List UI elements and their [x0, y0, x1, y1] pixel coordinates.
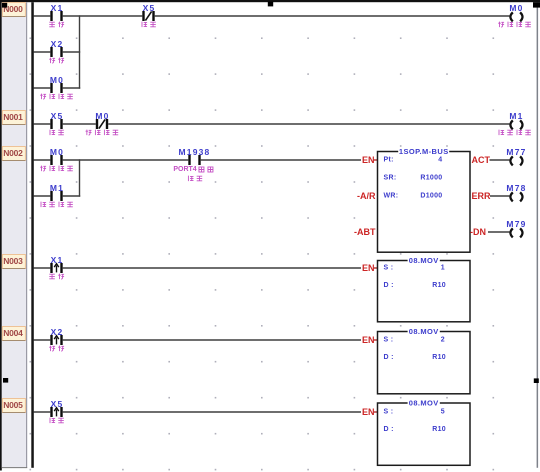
wire	[34, 123, 51, 125]
svg-text:X1: X1	[51, 255, 64, 265]
coil M1	[510, 120, 522, 129]
svg-text:2: 2	[441, 337, 445, 344]
left margin column	[2, 2, 27, 468]
svg-text:X2: X2	[51, 39, 64, 49]
svg-text:08.MOV: 08.MOV	[409, 399, 439, 408]
svg-text:D :: D :	[384, 282, 394, 289]
selection handle right-middle	[534, 378, 539, 383]
rung label N003	[2, 255, 25, 269]
svg-text:ACT: ACT	[472, 155, 491, 165]
rung label N004	[2, 327, 25, 341]
svg-text:R10: R10	[432, 282, 446, 289]
wire	[34, 87, 51, 89]
rung label N002	[2, 147, 25, 161]
label PORT4占用	[173, 166, 213, 173]
MOV3 param S :5	[384, 409, 446, 416]
coil M79	[510, 228, 522, 237]
wire	[63, 411, 361, 413]
wire	[34, 195, 51, 197]
svg-text:X5: X5	[143, 3, 156, 13]
contact X2	[50, 335, 62, 345]
svg-text:Pt:: Pt:	[384, 157, 394, 164]
svg-text:M77: M77	[506, 147, 526, 157]
svg-text:D :: D :	[384, 426, 394, 433]
svg-text:-A/R: -A/R	[357, 191, 376, 201]
wire	[34, 411, 51, 413]
svg-text:N001: N001	[3, 112, 23, 122]
svg-text:1SOP.M-BUS: 1SOP.M-BUS	[399, 147, 449, 156]
contact X5	[50, 407, 62, 417]
svg-text:N003: N003	[3, 256, 23, 266]
svg-text:EN: EN	[362, 335, 375, 345]
wire	[63, 339, 361, 341]
wire	[34, 51, 51, 53]
wire	[63, 123, 96, 125]
left border	[0, 0, 2, 471]
U1 param SR:R1000	[384, 175, 443, 182]
contact X2	[50, 47, 62, 57]
svg-text:X5: X5	[51, 111, 64, 121]
label 停止	[50, 130, 64, 136]
svg-text:M1: M1	[509, 111, 523, 121]
selection handle top-middle	[268, 2, 273, 7]
label 运行指示	[40, 94, 73, 100]
svg-text:M0: M0	[50, 75, 64, 85]
rung label N000	[2, 3, 25, 17]
top border	[0, 0, 540, 2]
svg-text:N005: N005	[3, 400, 23, 410]
wire	[63, 159, 189, 161]
svg-text:PORT4: PORT4	[173, 166, 196, 173]
coil M0	[510, 12, 522, 21]
svg-text:M0: M0	[509, 3, 523, 13]
svg-text:EN: EN	[362, 407, 375, 417]
svg-text:WR:: WR:	[384, 193, 399, 200]
contact X1	[50, 263, 62, 273]
svg-text:R10: R10	[432, 354, 446, 361]
svg-text:M1: M1	[50, 183, 64, 193]
svg-text:M0: M0	[50, 147, 64, 157]
svg-text:4: 4	[438, 157, 442, 164]
wire DN to coil	[488, 231, 509, 233]
function block MOV2 box	[378, 332, 471, 394]
MOV2 param S :2	[384, 337, 446, 344]
wire EN to MOV1	[374, 267, 378, 269]
MOV3 param D :R10	[384, 426, 447, 433]
function block U1 title	[398, 147, 449, 156]
function block MOV2 title	[408, 327, 440, 336]
label 运行指示	[40, 166, 73, 172]
right power rail	[537, 2, 539, 468]
U1 param WR:D1000	[384, 193, 443, 200]
contact X1	[50, 11, 62, 21]
svg-text:1: 1	[441, 265, 445, 272]
svg-text:ERR: ERR	[472, 191, 492, 201]
wire EN to block	[374, 159, 378, 161]
wire	[201, 159, 361, 161]
selection handle top-left	[2, 3, 7, 8]
MOV2 param D :R10	[384, 354, 447, 361]
coil M78	[510, 192, 522, 201]
svg-text:08.MOV: 08.MOV	[409, 256, 439, 265]
function block MOV3 title	[408, 399, 440, 408]
U1 param Pt:4	[384, 157, 443, 164]
svg-text:S :: S :	[384, 265, 394, 272]
svg-text:R1000: R1000	[420, 175, 442, 182]
wire	[108, 123, 509, 125]
svg-text:X5: X5	[51, 399, 64, 409]
MOV1 param S :1	[384, 265, 446, 272]
MOV1 param D :R10	[384, 282, 447, 289]
label 反转	[49, 58, 64, 64]
selection handle left-middle	[3, 378, 8, 383]
wire EN to MOV3	[374, 411, 378, 413]
rung label N005	[2, 399, 25, 413]
function block MOV1 box	[378, 261, 471, 322]
wire EN to MOV2	[374, 339, 378, 341]
svg-text:X1: X1	[51, 3, 64, 13]
selection handle top-right	[533, 2, 540, 7]
function block U1 box	[378, 152, 471, 253]
wire	[63, 87, 80, 89]
label 正转	[49, 274, 64, 280]
contact X5	[50, 119, 62, 129]
svg-text:EN: EN	[362, 263, 375, 273]
label 停止	[142, 22, 156, 28]
svg-text:S :: S :	[384, 409, 394, 416]
svg-text:N002: N002	[3, 148, 23, 158]
contact M0	[50, 155, 62, 165]
svg-text:M79: M79	[506, 219, 526, 229]
svg-text:M78: M78	[506, 183, 526, 193]
label 停止	[50, 418, 64, 424]
wire ACT to coil	[490, 159, 510, 161]
svg-text:M0: M0	[95, 111, 109, 121]
wire	[34, 159, 51, 161]
svg-text:EN: EN	[362, 155, 375, 165]
wire	[34, 15, 51, 17]
svg-text:S :: S :	[384, 337, 394, 344]
label 指示	[188, 176, 202, 182]
svg-text:-ABT: -ABT	[354, 227, 376, 237]
svg-text:08.MOV: 08.MOV	[409, 327, 439, 336]
label 停止指示	[499, 130, 531, 136]
label 正转	[49, 22, 64, 28]
wire	[34, 339, 51, 341]
label 停止指示	[41, 202, 73, 208]
wire ERR to coil	[490, 195, 509, 197]
function block MOV3 box	[378, 403, 471, 465]
branch junction wire N000	[79, 15, 81, 88]
wire	[155, 15, 510, 17]
wire	[63, 15, 143, 17]
wire	[63, 51, 80, 53]
label 反转	[49, 346, 64, 352]
svg-text:X2: X2	[51, 327, 64, 337]
svg-text:R10: R10	[432, 426, 446, 433]
svg-text:D :: D :	[384, 354, 394, 361]
contact X5	[142, 11, 154, 21]
svg-text:M1938: M1938	[179, 147, 211, 157]
wire	[63, 195, 80, 197]
contact M1938	[188, 155, 200, 165]
contact M0	[50, 83, 62, 93]
label 运行指示	[498, 22, 531, 28]
function block MOV1 title	[408, 256, 440, 265]
svg-text:5: 5	[441, 409, 445, 416]
label 运行指示	[86, 130, 119, 136]
svg-text:D1000: D1000	[420, 193, 442, 200]
left power rail	[31, 2, 34, 468]
coil M77	[510, 156, 522, 165]
wire	[34, 267, 51, 269]
contact M0	[96, 119, 108, 129]
rung label N001	[2, 111, 25, 125]
svg-text:N004: N004	[3, 328, 23, 338]
svg-text:SR:: SR:	[384, 175, 397, 182]
branch junction wire N002	[79, 159, 81, 196]
wire	[63, 267, 361, 269]
svg-text:-DN: -DN	[470, 227, 486, 237]
contact M1	[50, 191, 62, 201]
